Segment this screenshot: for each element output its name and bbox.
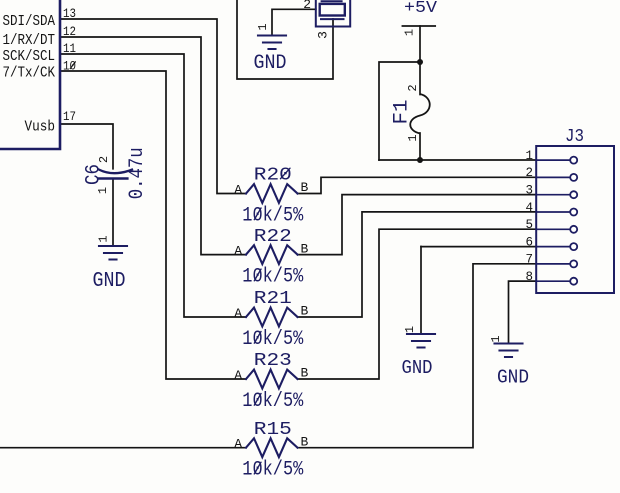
svg-text:1: 1 xyxy=(525,149,533,163)
svg-text:B: B xyxy=(301,180,309,195)
svg-text:10k/5%: 10k/5% xyxy=(242,459,304,482)
svg-text:0.47u: 0.47u xyxy=(126,147,149,199)
svg-text:3: 3 xyxy=(525,184,533,198)
svg-text:R22: R22 xyxy=(254,226,292,247)
svg-text:GND: GND xyxy=(402,357,433,379)
svg-text:C6: C6 xyxy=(83,164,106,185)
svg-text:R23: R23 xyxy=(254,350,292,371)
svg-text:4: 4 xyxy=(525,201,533,215)
svg-text:R21: R21 xyxy=(254,288,292,309)
svg-text:11: 11 xyxy=(63,41,76,56)
svg-text:+5V: +5V xyxy=(404,0,437,17)
svg-text:1: 1 xyxy=(403,29,417,36)
svg-text:F1: F1 xyxy=(391,100,414,125)
svg-text:1: 1 xyxy=(97,235,111,242)
svg-text:10k/5%: 10k/5% xyxy=(242,390,304,413)
svg-text:SCK/SCL: SCK/SCL xyxy=(3,48,56,65)
svg-text:6: 6 xyxy=(525,235,533,249)
svg-text:10: 10 xyxy=(63,59,76,74)
svg-text:2: 2 xyxy=(525,166,533,180)
svg-text:R15: R15 xyxy=(254,419,292,440)
svg-text:GND: GND xyxy=(497,367,529,389)
svg-text:A: A xyxy=(234,244,242,259)
svg-text:3: 3 xyxy=(316,31,331,39)
svg-text:A: A xyxy=(234,368,242,383)
svg-text:2: 2 xyxy=(406,84,420,91)
svg-text:R20: R20 xyxy=(254,165,292,186)
svg-text:7/Tx/CK: 7/Tx/CK xyxy=(3,65,56,82)
svg-text:B: B xyxy=(301,434,309,449)
svg-text:10k/5%: 10k/5% xyxy=(242,266,304,289)
svg-text:B: B xyxy=(301,304,309,319)
svg-text:10k/5%: 10k/5% xyxy=(242,205,304,228)
svg-text:8: 8 xyxy=(525,270,533,284)
svg-text:SDI/SDA: SDI/SDA xyxy=(3,13,56,30)
svg-text:A: A xyxy=(234,183,242,198)
svg-text:B: B xyxy=(301,241,309,256)
svg-text:GND: GND xyxy=(93,270,126,293)
svg-text:1: 1 xyxy=(96,187,110,194)
svg-text:2: 2 xyxy=(303,0,311,12)
svg-text:12: 12 xyxy=(63,24,76,39)
svg-text:J3: J3 xyxy=(565,126,584,147)
svg-text:2: 2 xyxy=(97,156,111,163)
svg-text:7: 7 xyxy=(525,253,533,267)
svg-text:10k/5%: 10k/5% xyxy=(242,328,304,351)
svg-text:5: 5 xyxy=(525,218,533,232)
svg-text:A: A xyxy=(234,306,242,321)
svg-text:1: 1 xyxy=(403,326,417,333)
svg-text:1/RX/DT: 1/RX/DT xyxy=(3,32,56,49)
svg-text:A: A xyxy=(234,437,242,452)
svg-text:1: 1 xyxy=(256,23,270,30)
svg-text:17: 17 xyxy=(63,109,76,124)
svg-text:1: 1 xyxy=(406,134,420,141)
svg-text:GND: GND xyxy=(254,52,287,75)
svg-text:13: 13 xyxy=(63,6,76,21)
svg-text:1: 1 xyxy=(489,335,503,342)
svg-text:B: B xyxy=(301,366,309,381)
svg-text:Vusb: Vusb xyxy=(25,119,56,136)
